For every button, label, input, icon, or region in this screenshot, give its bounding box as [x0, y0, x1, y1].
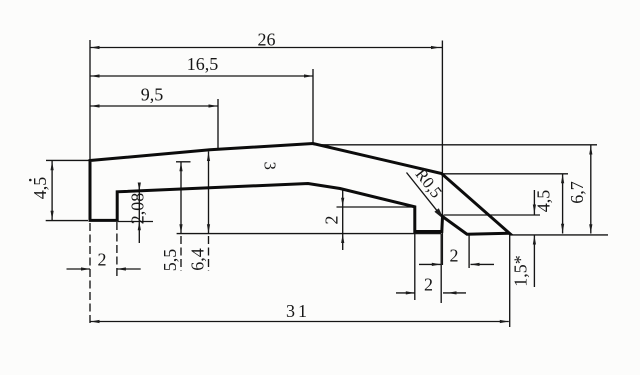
svg-text:2: 2	[322, 216, 342, 225]
svg-text:9,5: 9,5	[141, 85, 164, 105]
svg-text:6,7: 6,7	[567, 181, 587, 204]
svg-text:26: 26	[258, 30, 276, 50]
svg-text:2: 2	[424, 275, 433, 295]
svg-text:4,5: 4,5	[534, 190, 554, 213]
svg-text:2: 2	[450, 246, 459, 266]
svg-text:1,5*: 1,5*	[511, 255, 531, 287]
svg-text:16,5: 16,5	[187, 54, 219, 74]
svg-text:4,5: 4,5	[30, 177, 50, 200]
svg-text:6,4: 6,4	[188, 248, 208, 271]
svg-text:2,08: 2,08	[128, 193, 148, 225]
svg-text:3: 3	[261, 162, 280, 170]
svg-text:5,5: 5,5	[160, 249, 180, 272]
svg-text:2: 2	[98, 250, 107, 270]
